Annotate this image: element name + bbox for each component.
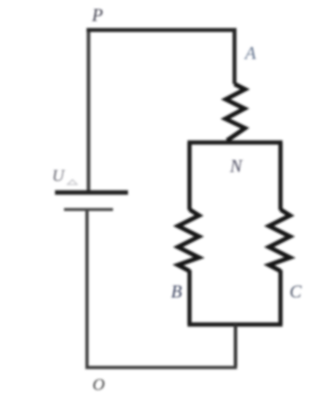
svg-text:N: N [229, 156, 243, 176]
svg-text:B: B [171, 282, 182, 302]
resistor R1 (between A and N) [225, 84, 245, 141]
resistor RC (right branch) [269, 210, 290, 272]
wire: box right edge lower [278, 270, 282, 325]
resistor RB (left branch) [178, 210, 199, 272]
wire: box left edge lower [187, 270, 191, 325]
wire: bottom rail from stub to O corner and up to battery [87, 211, 237, 368]
wire: box right edge upper [278, 143, 282, 211]
node N box: top edge [188, 140, 283, 144]
svg-text:U: U [52, 166, 66, 185]
wire: stub from box bottom to bottom rail [234, 325, 237, 368]
wire: left vertical from P corner down to battery [87, 28, 91, 191]
svg-text:C: C [290, 282, 303, 302]
svg-text:P: P [91, 5, 103, 25]
wire: box left edge upper [187, 143, 191, 211]
svg-text:O: O [93, 375, 105, 394]
wire: box bottom edge [188, 322, 283, 326]
battery U: long plate [55, 190, 128, 194]
wire: top rail from P to corner A [87, 30, 235, 84]
battery U: short plate [64, 208, 113, 211]
svg-text:A: A [244, 43, 257, 63]
label U subscript mark [68, 180, 78, 185]
